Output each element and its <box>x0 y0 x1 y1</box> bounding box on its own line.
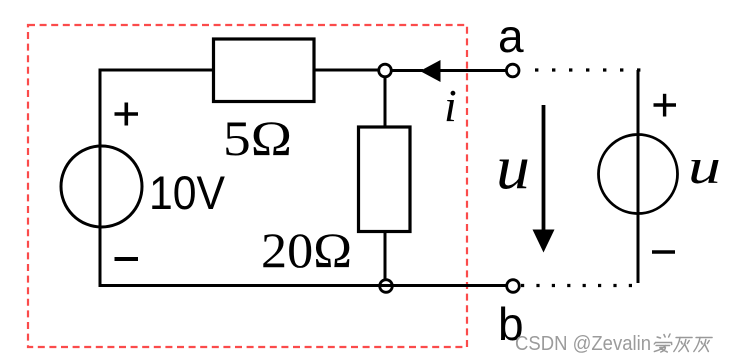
dotted link top <box>535 68 641 71</box>
node bottom-mid <box>380 280 393 293</box>
watermark CJK glyph hui1 <box>674 338 692 352</box>
wire mid vertical upper <box>384 76 387 128</box>
plus sign V1 <box>115 103 139 126</box>
svg-text:10V: 10V <box>149 166 226 219</box>
wire right vertical <box>637 70 640 283</box>
node a terminal <box>506 64 519 77</box>
voltage source V1 10V <box>61 146 142 227</box>
resistor R1 body <box>214 39 315 102</box>
svg-text:i: i <box>444 80 457 131</box>
svg-text:5Ω: 5Ω <box>223 110 292 166</box>
svg-text:u: u <box>688 138 721 194</box>
node b terminal <box>507 280 520 293</box>
node top-mid <box>379 64 392 77</box>
dashed boundary box <box>28 25 467 347</box>
svg-text:a: a <box>498 10 524 62</box>
voltage arrow u <box>542 105 546 234</box>
wire mid vertical lower <box>384 232 387 281</box>
svg-text:CSDN @Zevalin: CSDN @Zevalin <box>515 332 651 355</box>
wire top left segment <box>99 69 216 72</box>
current arrow head <box>420 60 441 82</box>
svg-text:20Ω: 20Ω <box>261 222 352 278</box>
wire resistor to node <box>314 69 380 72</box>
wire left vertical <box>99 70 102 286</box>
plus sign right <box>654 94 677 117</box>
wire node to arrow <box>391 69 423 72</box>
voltage source right u <box>599 135 678 214</box>
wire arrow to node a <box>439 69 507 72</box>
minus sign V1 <box>115 257 139 261</box>
watermark CJK glyph ai <box>653 334 673 352</box>
wire bottom <box>99 284 508 287</box>
svg-text:u: u <box>496 135 530 203</box>
resistor R2 body <box>359 127 411 232</box>
dotted link bottom <box>521 284 641 287</box>
watermark CJK glyph hui2 <box>694 338 712 352</box>
minus sign right <box>652 250 675 253</box>
